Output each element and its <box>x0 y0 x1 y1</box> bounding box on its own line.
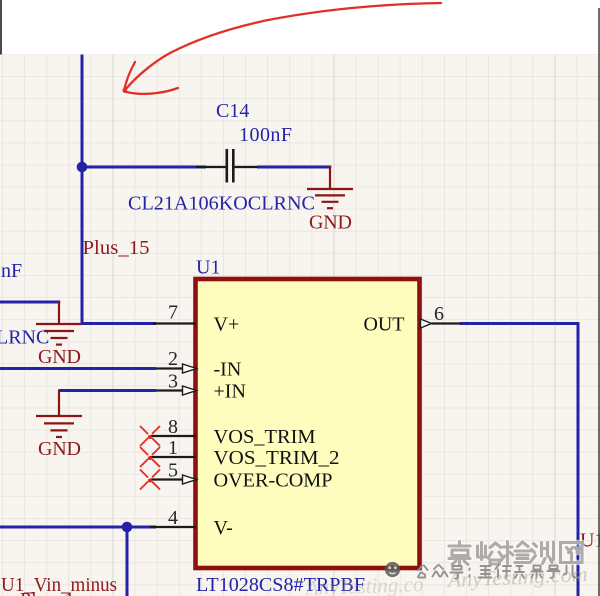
wire: pin4 V- net U1_Vin_minus <box>0 526 156 529</box>
svg-text:GND: GND <box>38 346 81 368</box>
pin 6 OUT <box>364 303 462 336</box>
wire: pin2 -IN net <box>0 367 156 370</box>
wire: cap branch horizontal to C14 <box>82 166 206 169</box>
junction at pin4 / U1_Vin_minus <box>122 522 133 533</box>
svg-text:8: 8 <box>168 416 178 438</box>
svg-text:2: 2 <box>168 348 178 370</box>
no-ERC cross pin 5 <box>140 470 160 490</box>
white top band <box>0 0 600 54</box>
pin 4 V- <box>150 507 233 539</box>
svg-text:7: 7 <box>168 302 178 324</box>
watermark small text (stylized CJK) <box>418 565 579 579</box>
svg-text:6: 6 <box>434 303 444 325</box>
pin 3 +IN <box>156 371 246 403</box>
ground power port at C14 <box>307 166 353 208</box>
pin 1 VOS_TRIM_2 <box>150 437 340 469</box>
wire: OUT net vertical at right <box>577 322 580 596</box>
svg-text:VOS_TRIM_2: VOS_TRIM_2 <box>214 447 340 469</box>
svg-text:VOS_TRIM: VOS_TRIM <box>214 426 316 448</box>
op-amp U1 body <box>196 279 420 568</box>
svg-text:V+: V+ <box>214 314 240 336</box>
pin 8 VOS_TRIM <box>150 416 316 448</box>
window edge left <box>0 0 2 55</box>
svg-text:LRNC: LRNC <box>0 327 49 349</box>
ground power port GND1 (left, upper) <box>36 301 82 345</box>
pin 2 -IN <box>156 348 241 381</box>
wire: C14 right to GND corner <box>257 166 331 169</box>
svg-text:GND: GND <box>38 438 81 460</box>
wire: OUT net horizontal <box>460 322 579 325</box>
svg-text:GND: GND <box>309 212 352 234</box>
svg-text:3: 3 <box>168 371 178 393</box>
darker major grid line <box>113 54 555 596</box>
svg-text:V-: V- <box>214 517 233 539</box>
capacitor C14 <box>196 149 258 183</box>
svg-text:Plus_1: Plus_1 <box>20 589 74 596</box>
svg-text:U1: U1 <box>196 257 220 279</box>
svg-text:+IN: +IN <box>214 381 246 403</box>
no-ERC cross pin 8 <box>140 426 160 446</box>
svg-text:5: 5 <box>168 460 178 482</box>
svg-text:100nF: 100nF <box>239 124 292 146</box>
svg-text:4: 4 <box>168 507 178 529</box>
wire: vertical drop from pin4 junction <box>126 527 129 596</box>
no-ERC cross pin 1 <box>140 447 160 467</box>
svg-text:nF: nF <box>1 260 22 282</box>
junction at C14 branch <box>77 162 88 173</box>
pin 5 OVER-COMP <box>150 460 333 492</box>
watermark big text (stylized CJK) <box>449 542 582 565</box>
svg-text:AnyTesting.com: AnyTesting.com <box>445 562 588 592</box>
wire: pin3 +IN net from GND2 <box>59 389 156 392</box>
svg-text:OUT: OUT <box>364 314 405 336</box>
svg-text:AnyTesting.co: AnyTesting.co <box>303 572 423 596</box>
window edge right <box>598 8 600 596</box>
svg-text:-IN: -IN <box>214 359 242 381</box>
svg-text:C14: C14 <box>216 100 249 122</box>
wire: +15V vertical net Plus_15 <box>81 55 84 325</box>
svg-text:1: 1 <box>168 437 178 459</box>
watermark halo <box>449 542 582 565</box>
red annotation arrow (hand drawn) <box>124 3 441 94</box>
wire: pin7 net horizontal <box>81 322 156 325</box>
svg-text:CL21A106KOCLRNC: CL21A106KOCLRNC <box>128 193 315 215</box>
pin 7 V+ <box>153 302 239 336</box>
wire: left cap to GND1 <box>0 301 60 304</box>
watermark icon <box>385 562 400 577</box>
svg-text:OVER-COMP: OVER-COMP <box>214 470 333 492</box>
ground power port GND2 (left, lower) <box>36 390 82 438</box>
svg-text:Plus_15: Plus_15 <box>83 237 150 259</box>
